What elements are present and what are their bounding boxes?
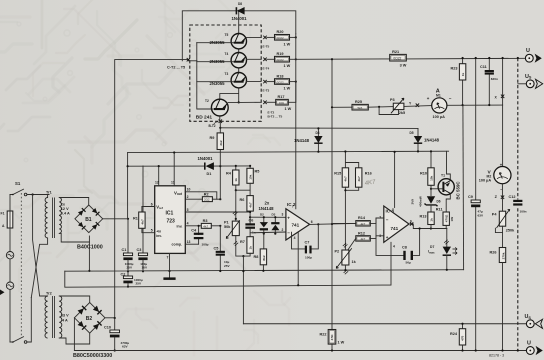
svg-text:10V: 10V — [142, 266, 148, 270]
svg-text:1N4001: 1N4001 — [198, 156, 214, 161]
node C-T2...T5 — [167, 58, 190, 70]
resistor R16 — [356, 168, 372, 187]
svg-text:T3: T3 — [225, 72, 229, 76]
svg-text:100n: 100n — [520, 210, 527, 214]
svg-text:2k2: 2k2 — [219, 140, 223, 145]
svg-text:R22: R22 — [320, 333, 327, 337]
sense vertical x=332 — [331, 59, 333, 329]
trimmer P3 — [378, 98, 405, 115]
svg-text:3: 3 — [282, 212, 284, 216]
svg-text:B2: B2 — [86, 316, 93, 322]
wire meter minus to X column — [502, 58, 504, 105]
svg-text:R8: R8 — [254, 255, 259, 259]
svg-text:R19: R19 — [277, 52, 284, 56]
capacitor C8 — [376, 218, 420, 265]
svg-text:1k: 1k — [461, 72, 465, 76]
voltmeter column x=502.5 — [502, 105, 504, 167]
svg-text:C-T2 ... T5: C-T2 ... T5 — [167, 66, 185, 70]
svg-text:R11: R11 — [436, 208, 443, 212]
resistor R6 — [240, 190, 254, 211]
resistor R22 — [320, 330, 345, 352]
svg-text:50k: 50k — [224, 225, 231, 229]
potentiometer P2 — [335, 243, 357, 274]
IC1 pin 7 to ground rail — [169, 253, 171, 271]
svg-text:2: 2 — [187, 195, 189, 199]
resistor R2 — [202, 192, 212, 201]
svg-text:R15: R15 — [334, 172, 341, 176]
svg-text:R21: R21 — [392, 50, 399, 54]
transistor T2 BD241 — [196, 99, 261, 121]
svg-text:1k: 1k — [429, 218, 433, 222]
svg-text:1 W: 1 W — [284, 42, 291, 46]
node X — [495, 95, 505, 100]
svg-text:1k: 1k — [234, 178, 238, 182]
svg-text:10k: 10k — [249, 174, 253, 179]
svg-text:6: 6 — [151, 203, 153, 207]
svg-text:0Ω22: 0Ω22 — [277, 80, 284, 84]
svg-text:1N4148: 1N4148 — [424, 138, 440, 143]
svg-text:270k: 270k — [502, 252, 506, 259]
top collector rail to D8 — [182, 11, 295, 61]
node E-T5 — [263, 36, 270, 49]
diode D1 1N4001 — [198, 156, 214, 176]
svg-text:8k2: 8k2 — [262, 255, 266, 260]
svg-text:0Ω22: 0Ω22 — [277, 58, 284, 62]
meter ground return vertical x=463 — [462, 105, 465, 270]
node Y — [409, 101, 419, 107]
capacitor C1 — [122, 219, 134, 271]
svg-text:M1: M1 — [436, 94, 441, 98]
svg-text:C1: C1 — [122, 248, 127, 252]
svg-text:10: 10 — [187, 188, 191, 192]
svg-text:IC1: IC1 — [166, 211, 174, 217]
svg-text:1 W: 1 W — [284, 87, 291, 91]
svg-text:C12: C12 — [509, 195, 516, 199]
svg-text:1 W: 1 W — [285, 107, 292, 111]
svg-text:R25: R25 — [355, 100, 362, 104]
transistor T5 2N3055 — [197, 33, 261, 49]
svg-text:723: 723 — [167, 219, 176, 225]
svg-text:D3: D3 — [272, 213, 276, 217]
svg-text:C2: C2 — [121, 272, 126, 276]
svg-text:C10: C10 — [104, 325, 111, 329]
svg-text:R20: R20 — [277, 30, 284, 34]
node E-T4 — [263, 58, 270, 71]
svg-text:R1: R1 — [133, 217, 138, 221]
svg-text:2N3055: 2N3055 — [210, 59, 226, 64]
capacitor C10 — [104, 318, 129, 352]
rail V+ upper (y=152) — [128, 151, 449, 152]
svg-text:R9: R9 — [210, 136, 215, 140]
svg-text:3: 3 — [187, 208, 189, 212]
IC2 pin4 to rail B — [297, 233, 299, 286]
svg-text:C4: C4 — [191, 228, 197, 232]
svg-text:1k: 1k — [249, 246, 253, 250]
svg-text:100p: 100p — [305, 255, 312, 259]
transistor T1 BC559C — [438, 151, 460, 212]
meter wire y=106 — [332, 105, 503, 107]
op-amp IC2 741 — [282, 202, 313, 240]
node E-T3 — [263, 80, 270, 93]
svg-text:P4: P4 — [492, 212, 498, 216]
IC1 pin 3 wire — [185, 211, 249, 213]
resistor R10 — [420, 150, 434, 185]
svg-text:U: U — [526, 48, 530, 54]
svg-text:B80C5000/3300: B80C5000/3300 — [73, 353, 112, 359]
svg-text:R4: R4 — [226, 172, 232, 176]
svg-text:250k: 250k — [506, 229, 515, 233]
svg-text:F1: F1 — [1, 212, 5, 216]
resistor R9 — [210, 133, 224, 150]
svg-text:2N3055: 2N3055 — [210, 40, 226, 45]
fuse F1 — [1, 211, 13, 228]
svg-text:D4: D4 — [316, 131, 320, 135]
svg-text:Vref: Vref — [156, 204, 163, 210]
svg-text:T4: T4 — [225, 52, 229, 56]
resistor R18 — [267, 74, 297, 90]
svg-text:6: 6 — [311, 220, 313, 224]
svg-text:D7: D7 — [430, 245, 434, 249]
resistor R3 — [201, 219, 211, 228]
svg-text:−: − — [287, 230, 290, 235]
svg-text:11: 11 — [171, 181, 175, 185]
svg-text:470: 470 — [461, 335, 465, 340]
wire B1 plus output — [103, 218, 128, 220]
svg-text:741: 741 — [292, 222, 300, 227]
svg-text:U: U — [527, 341, 531, 347]
svg-text:B40C1000: B40C1000 — [77, 245, 103, 251]
svg-text:Z: Z — [495, 195, 498, 199]
svg-text:R24: R24 — [450, 332, 458, 336]
wire Tr2 sec bottom elbow to B2 — [59, 333, 89, 344]
IC1 pin 11 — [173, 153, 175, 186]
svg-text:25V: 25V — [136, 282, 142, 286]
svg-text:63V: 63V — [478, 213, 484, 217]
svg-text:R5: R5 — [255, 170, 260, 174]
wire P4 to R26 — [502, 226, 504, 247]
heatsink dashed box — [190, 25, 261, 121]
transformer Tr1 — [45, 191, 70, 239]
mains edge mark — [0, 290, 5, 296]
svg-text:1k: 1k — [352, 260, 357, 264]
svg-text:comp.: comp. — [172, 243, 183, 247]
wire fuse to ac1 — [9, 228, 11, 252]
svg-text:BD 241: BD 241 — [196, 114, 213, 120]
svg-text:2Ω2: 2Ω2 — [204, 198, 210, 202]
svg-text:5: 5 — [151, 229, 153, 233]
svg-text:R12: R12 — [358, 231, 365, 235]
T1 base node — [430, 185, 432, 195]
wire Tr1 sec top to B1 — [59, 198, 88, 206]
svg-text:C8: C8 — [402, 246, 407, 250]
svg-text:82178 - 3: 82178 - 3 — [489, 354, 504, 358]
IC2 -input wire — [250, 231, 286, 234]
svg-text:D2: D2 — [260, 213, 264, 217]
AC source symbol 2 — [6, 282, 13, 289]
IC3 pin4 to rail B — [390, 242, 392, 270]
IC2 +input wire — [250, 216, 286, 218]
wire P1/R7 bottoms to sense column — [236, 236, 250, 257]
svg-text:D6: D6 — [437, 200, 441, 204]
drive column (R2 node up through D1 rail, R9, to T2 base) — [219, 166, 221, 199]
svg-text:3V9: 3V9 — [411, 199, 415, 205]
svg-text:1W: 1W — [450, 217, 454, 222]
node B-T2 — [209, 120, 223, 128]
svg-text:47Ω: 47Ω — [330, 334, 334, 340]
op-amp regulator IC1 723 — [155, 186, 186, 254]
svg-text:US: US — [525, 74, 532, 80]
svg-text:4k7: 4k7 — [140, 219, 144, 224]
ground symbol — [163, 270, 175, 280]
svg-text:13: 13 — [187, 240, 191, 244]
svg-text:Vout: Vout — [174, 190, 183, 196]
svg-text:7: 7 — [292, 205, 294, 209]
capacitor C9 — [468, 57, 484, 352]
ammeter M1 — [427, 88, 452, 119]
svg-text:+: + — [386, 235, 389, 240]
svg-text:400mW: 400mW — [419, 196, 423, 207]
collector wire into box — [188, 60, 196, 62]
svg-text:R14: R14 — [358, 216, 366, 220]
resistor R1 — [133, 212, 145, 228]
svg-text:4k7: 4k7 — [361, 222, 366, 226]
resistor R12 — [356, 231, 371, 241]
node E-T2 — [263, 101, 282, 119]
ganged switch dashed link — [20, 193, 22, 338]
svg-text:R17: R17 — [278, 95, 285, 99]
svg-text:D8: D8 — [238, 2, 242, 6]
voltmeter M2 — [479, 163, 511, 192]
sense column to Us- rail — [242, 256, 244, 324]
wire R2 to drive column — [212, 198, 220, 200]
trimmer P4 — [492, 210, 515, 233]
resistor R11 — [436, 208, 454, 229]
node with test mark on output — [410, 222, 413, 225]
capacitor C6 — [245, 219, 255, 237]
svg-text:Tr2: Tr2 — [46, 292, 52, 296]
capacitor C12 on sense line — [509, 195, 527, 214]
transistor T4 2N3055 — [197, 52, 261, 68]
capacitor C4 — [191, 225, 208, 247]
svg-text:25V: 25V — [224, 264, 230, 268]
sense dashed line x=518 — [517, 58, 519, 351]
svg-text:R26: R26 — [490, 250, 497, 254]
svg-text:inv.: inv. — [177, 224, 183, 228]
svg-text:10Ω: 10Ω — [279, 101, 285, 105]
svg-text:4K7: 4K7 — [364, 179, 376, 187]
svg-text:25V: 25V — [127, 266, 133, 270]
resistor R7 — [240, 237, 253, 254]
svg-text:E-T5: E-T5 — [263, 45, 270, 49]
wire R9 top to T2 base node — [219, 121, 221, 133]
svg-text:B-T2 ... T5: B-T2 ... T5 — [268, 115, 283, 119]
output rail y=59 to U+ — [296, 58, 527, 59]
svg-text:T1: T1 — [441, 173, 445, 177]
svg-text:1 W: 1 W — [284, 64, 291, 68]
svg-text:820n: 820n — [491, 77, 498, 81]
svg-text:Tr1: Tr1 — [46, 191, 52, 195]
collector bus through transistors — [220, 11, 239, 103]
svg-text:BC 559C: BC 559C — [456, 181, 461, 200]
svg-text:63V: 63V — [122, 345, 128, 349]
svg-text:2x: 2x — [61, 203, 66, 207]
wire R12 to IC3 noninv input — [370, 236, 384, 239]
svg-text:1N4001: 1N4001 — [232, 16, 248, 21]
svg-text:C9: C9 — [468, 195, 473, 199]
op-amp IC3 741 — [379, 206, 412, 242]
bridge rectifier B1 B40C1000 — [75, 205, 103, 251]
resistor R17 — [267, 82, 296, 112]
svg-text:C6: C6 — [249, 219, 254, 223]
capacitor C11 — [480, 57, 498, 106]
svg-text:C3: C3 — [137, 248, 142, 252]
IC1 pin 10 Vout — [185, 192, 217, 199]
IC1 pin 4 inv wire — [185, 225, 201, 227]
resistor R8 — [254, 234, 267, 272]
capacitor C7 — [292, 224, 319, 259]
svg-text:+: + — [287, 216, 290, 221]
svg-text:D1: D1 — [207, 172, 212, 176]
resistor R13 — [420, 212, 435, 229]
svg-text:−: − — [449, 96, 452, 101]
svg-text:R13: R13 — [420, 215, 427, 219]
wire crossing diag 2 (Tr1 primary bottom to S1b) — [31, 238, 47, 298]
svg-text:100p: 100p — [202, 243, 209, 247]
svg-text:5k6: 5k6 — [358, 106, 363, 110]
rail Us- sense C (y=323.75) — [243, 323, 526, 325]
resistor R26 — [490, 248, 506, 263]
capacitor C3 — [137, 166, 148, 271]
svg-text:12 V: 12 V — [61, 207, 69, 211]
svg-text:R2: R2 — [204, 192, 209, 196]
svg-text:4: 4 — [187, 222, 189, 226]
IC1 pin 13 comp wire — [185, 243, 198, 245]
svg-text:2: 2 — [282, 228, 284, 232]
IC3 output wire — [409, 224, 447, 229]
link between dividers — [236, 183, 250, 190]
svg-text:R6: R6 — [240, 198, 245, 202]
svg-text:4k7: 4k7 — [344, 176, 348, 181]
svg-text:3 W: 3 W — [400, 64, 407, 68]
zener D6 — [411, 196, 441, 212]
resistor R25 — [352, 100, 368, 110]
base bus — [197, 43, 212, 109]
svg-text:4: 4 — [393, 245, 395, 249]
rail D dashed sense dot — [517, 349, 519, 351]
capacitor C2 — [121, 271, 143, 287]
svg-text:4 A: 4 A — [62, 319, 68, 323]
diode D5 1N4148 — [410, 128, 440, 152]
svg-text:0.4 A: 0.4 A — [61, 212, 70, 216]
svg-text:inv.: inv. — [156, 234, 162, 238]
IC1 pin 6 Vref wire to R1 — [142, 207, 155, 213]
svg-text:X: X — [495, 95, 498, 99]
wire crossing diag 1 (S1a down to Tr2 primary) — [33, 195, 48, 297]
wire ac1 to ac2 — [9, 259, 11, 282]
svg-text:C7: C7 — [305, 241, 310, 245]
rail U- D (y=350.5) — [74, 350, 526, 352]
svg-text:4: 4 — [294, 236, 296, 240]
AC source symbol 1 — [6, 252, 13, 259]
IC1 pin 12 — [158, 166, 160, 186]
svg-text:R23: R23 — [451, 67, 458, 71]
svg-text:B1: B1 — [85, 217, 92, 223]
svg-text:2N3055: 2N3055 — [210, 81, 226, 86]
svg-text:P2: P2 — [335, 250, 340, 254]
svg-text:−: − — [386, 217, 389, 222]
wire mains live down — [9, 195, 11, 212]
bridge rectifier B2 B80C5000/3300 — [73, 303, 112, 359]
diode D4 1N4148 — [294, 127, 323, 152]
svg-text:C5: C5 — [214, 246, 219, 250]
rail V+ lower with D1 (y=166) — [128, 165, 251, 167]
rail 0V B (y=286.5) — [65, 270, 391, 287]
svg-text:0Ω22: 0Ω22 — [393, 57, 401, 61]
svg-text:7: 7 — [167, 256, 169, 260]
main raw positive vertical bus (B2+ up to collector rail) — [115, 60, 189, 319]
svg-text:R10: R10 — [420, 172, 427, 176]
switch S1 pole b — [10, 337, 27, 344]
svg-text:4k7: 4k7 — [357, 176, 361, 181]
svg-text:470Ω: 470Ω — [444, 214, 448, 222]
rail 0V A (y=271) — [65, 270, 464, 272]
svg-text:E-T3: E-T3 — [263, 89, 270, 93]
wire B2 plus to bus — [105, 317, 115, 319]
IC1 pin 2 wire — [185, 198, 202, 200]
resistor R15 — [334, 150, 358, 187]
svg-text:12: 12 — [155, 181, 159, 185]
resistor R20 — [267, 30, 297, 46]
wire Tr2 sec top to B2 — [59, 296, 89, 303]
terminal U- — [526, 341, 542, 356]
transformer Tr2 — [45, 292, 69, 339]
junction S1a — [31, 193, 33, 195]
R15/R16 join — [345, 187, 358, 250]
svg-text:15k: 15k — [429, 175, 433, 180]
svg-text:1 W: 1 W — [338, 341, 345, 345]
resistor R21 — [390, 50, 407, 68]
potentiometer P1 — [224, 190, 240, 246]
wire P2 wiper to R12 — [348, 238, 356, 249]
resistor R24 — [450, 323, 466, 352]
terminal Us- — [525, 314, 543, 328]
svg-text:2: 2 — [379, 215, 381, 219]
svg-text:US: US — [525, 314, 532, 320]
svg-text:7: 7 — [392, 208, 394, 212]
resistor R19 — [267, 52, 297, 68]
svg-text:R7: R7 — [240, 240, 245, 244]
svg-text:C11: C11 — [480, 65, 487, 69]
svg-text:2k5: 2k5 — [399, 111, 405, 115]
diode D2 — [260, 213, 268, 235]
wire R26 to rail D — [502, 263, 504, 351]
wire B2 minus left vertex to rail D — [73, 318, 75, 351]
wire B1 minus down to rail A — [88, 236, 90, 271]
svg-text:+: + — [427, 96, 430, 101]
svg-text:T2: T2 — [205, 99, 209, 103]
svg-text:4k7: 4k7 — [203, 224, 208, 228]
E-bus vertical down to IC2 supply — [295, 34, 297, 209]
svg-text:R3: R3 — [203, 219, 208, 223]
terminal Us+ — [518, 74, 543, 89]
resistor R23 — [451, 57, 466, 106]
svg-text:D5: D5 — [410, 131, 414, 135]
wire Tr1 sec bottom elbow to B1 — [59, 233, 89, 242]
svg-text:E-T4: E-T4 — [263, 66, 270, 70]
resistor R5 — [247, 165, 259, 184]
svg-text:4k7: 4k7 — [361, 237, 366, 241]
svg-text:R18: R18 — [277, 74, 284, 78]
